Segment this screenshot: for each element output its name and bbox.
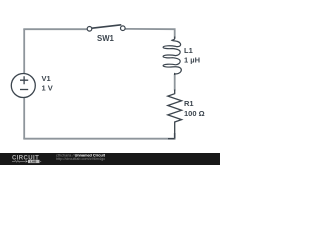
svg-text:LAB: LAB (30, 159, 37, 163)
wire right bottom segment (174, 133, 176, 139)
wire top right segment (125, 29, 175, 39)
voltage source V1 circle (11, 74, 35, 98)
wire bottom horizontal (23, 138, 175, 140)
switch SW1 right terminal (121, 26, 126, 31)
inductor L1 coil (163, 37, 181, 76)
svg-text:http://circuitlab.com/c96m4gc: http://circuitlab.com/c96m4gc (56, 157, 105, 161)
svg-text:R1: R1 (184, 99, 194, 108)
switch SW1 left terminal (87, 27, 92, 32)
logo arrow (26, 160, 28, 162)
svg-text:1 V: 1 V (42, 84, 53, 93)
logo LAB box (28, 160, 40, 163)
svg-text:1 µH: 1 µH (184, 56, 200, 65)
svg-text:V1: V1 (42, 74, 51, 83)
footer bar (0, 153, 220, 165)
voltage source minus sign (20, 89, 28, 91)
logo wire line (12, 161, 41, 163)
svg-text:SW1: SW1 (97, 34, 115, 43)
resistor R1 zigzag (168, 90, 182, 139)
wire top left segment (23, 28, 87, 30)
voltage source plus sign (20, 76, 28, 84)
switch SW1 lever (92, 25, 121, 28)
svg-text:L1: L1 (184, 46, 193, 55)
svg-text:100 Ω: 100 Ω (184, 109, 205, 118)
wire left vertical (bottom half) (23, 97, 25, 138)
wire left vertical (top half) (23, 29, 25, 73)
wire right middle segment (174, 74, 176, 91)
